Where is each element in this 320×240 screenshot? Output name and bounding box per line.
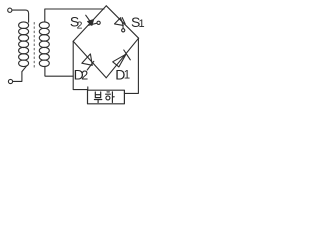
label Buha (load) hangul strokes [94,92,114,103]
SCR S2 gate terminal [97,21,100,24]
wire secondary top to bridge top vertex [45,9,104,22]
diode D1 triangle [113,54,126,67]
wire left vertex to load (node J1 junction) [73,41,87,89]
transformer core (dashed) [33,23,35,70]
SCR S2 cathode bar [86,15,92,24]
wire P1 to primary top [12,10,29,22]
svg-text:2: 2 [77,19,83,31]
svg-text:1: 1 [139,18,145,30]
SCR S2 triangle [88,20,94,26]
wire secondary bottom to node J1 [45,66,73,76]
wire primary bottom to terminal P2 [13,66,27,81]
wire right vertex to load [124,38,138,93]
tick at load left lead [87,87,89,90]
SCR S1 cathode bar [122,18,125,24]
diode D2 cathode bar [87,61,94,70]
terminal P2 (bottom-left input) [8,79,12,83]
bridge arm T-R (wire) [106,6,138,38]
primary winding L1 [19,22,29,67]
svg-text:2: 2 [81,69,88,83]
svg-text:1: 1 [124,70,130,82]
diode D1 cathode bar [124,50,131,60]
SCR S2 gate lead [88,23,97,25]
bridge arm B-R (wire) [106,38,138,78]
terminal P1 (top-left input) [8,8,12,12]
SCR S1 triangle [115,18,124,26]
SCR S1 gate terminal [122,29,125,32]
secondary winding L2 [39,22,49,67]
SCR S1 gate lead [122,26,124,29]
hangul HA [106,92,115,103]
bridge arm L-B (wire) [73,41,106,78]
diode D2 triangle [82,54,93,65]
load box [88,90,125,104]
hangul BU [94,92,101,103]
bridge arm T-L (wire) [73,6,106,42]
